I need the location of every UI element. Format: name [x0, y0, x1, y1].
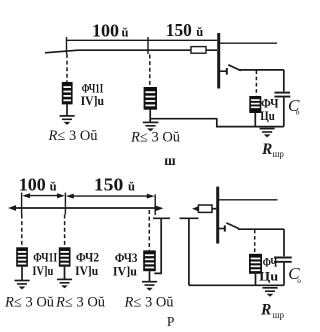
svg-text:ФЧ: ФЧ	[263, 255, 278, 270]
svg-text:ŭ: ŭ	[50, 180, 57, 194]
svg-text:R≤ 3 Оŭ: R≤ 3 Оŭ	[55, 295, 105, 311]
svg-text:R≤ 3 Оŭ: R≤ 3 Оŭ	[130, 130, 180, 146]
svg-text:IV]u: IV]u	[75, 264, 98, 278]
svg-text:ŭ: ŭ	[122, 26, 129, 40]
svg-text:шр: шр	[273, 310, 285, 320]
svg-text:150: 150	[94, 175, 124, 195]
svg-text:ŭ: ŭ	[128, 180, 135, 194]
svg-text:ш: ш	[164, 153, 176, 168]
svg-text:Цu: Цu	[260, 109, 275, 123]
svg-text:100: 100	[19, 175, 46, 195]
svg-text:R≤ 3 Оŭ: R≤ 3 Оŭ	[4, 295, 54, 311]
svg-text:ФЧ2: ФЧ2	[76, 250, 99, 265]
svg-text:o: o	[297, 276, 301, 285]
svg-text:ФЧ3: ФЧ3	[115, 250, 138, 265]
svg-text:IV]u: IV]u	[32, 264, 53, 278]
svg-text:ФЧ1I: ФЧ1I	[33, 250, 57, 265]
svg-text:ŭ: ŭ	[196, 25, 203, 39]
svg-text:o: o	[296, 108, 300, 117]
svg-text:IV]u: IV]u	[81, 94, 105, 108]
svg-text:Р: Р	[167, 314, 175, 329]
svg-text:100: 100	[92, 21, 119, 41]
svg-text:R≤ 3 Оŭ: R≤ 3 Оŭ	[124, 295, 174, 311]
svg-text:150: 150	[166, 20, 192, 40]
svg-text:R≤ 3 Оŭ: R≤ 3 Оŭ	[48, 128, 98, 144]
svg-text:R: R	[260, 302, 271, 319]
svg-text:IV]u: IV]u	[113, 265, 137, 279]
svg-text:R: R	[261, 141, 272, 158]
svg-text:Цu: Цu	[259, 269, 278, 283]
svg-text:шр: шр	[273, 149, 285, 159]
